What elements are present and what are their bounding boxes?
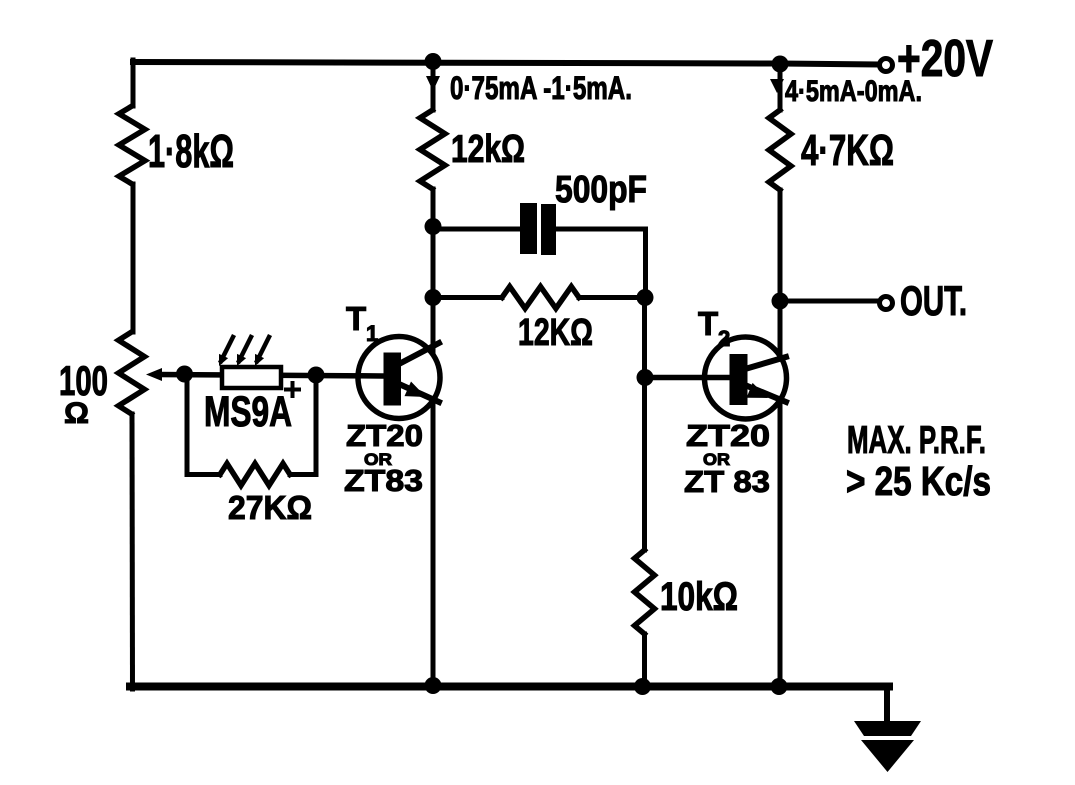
svg-text:1·8kΩ: 1·8kΩ [148, 125, 234, 177]
svg-text:12kΩ: 12kΩ [451, 128, 525, 171]
svg-text:ZT83: ZT83 [344, 463, 423, 498]
svg-text:ZT20: ZT20 [346, 418, 423, 453]
svg-text:+20V: +20V [897, 30, 993, 88]
svg-text:ZT 83: ZT 83 [684, 464, 770, 499]
svg-text:ZT20: ZT20 [686, 418, 770, 453]
svg-text:Ω: Ω [64, 397, 89, 430]
svg-text:0·75mA -1·5mA.: 0·75mA -1·5mA. [450, 70, 632, 106]
svg-text:MAX. P.R.F.: MAX. P.R.F. [847, 419, 986, 462]
svg-text:OUT.: OUT. [900, 277, 967, 324]
svg-text:2: 2 [718, 326, 730, 351]
svg-text:12KΩ: 12KΩ [518, 312, 593, 354]
svg-text:T: T [346, 300, 366, 337]
svg-text:10kΩ: 10kΩ [660, 575, 738, 619]
svg-text:1: 1 [366, 321, 378, 346]
svg-text:27KΩ: 27KΩ [228, 489, 312, 526]
svg-text:T: T [698, 305, 718, 342]
svg-text:> 25 Kc/s: > 25 Kc/s [846, 458, 991, 504]
svg-text:4·7KΩ: 4·7KΩ [801, 126, 894, 175]
svg-text:MS9A: MS9A [204, 388, 292, 436]
svg-text:500pF: 500pF [555, 169, 647, 211]
